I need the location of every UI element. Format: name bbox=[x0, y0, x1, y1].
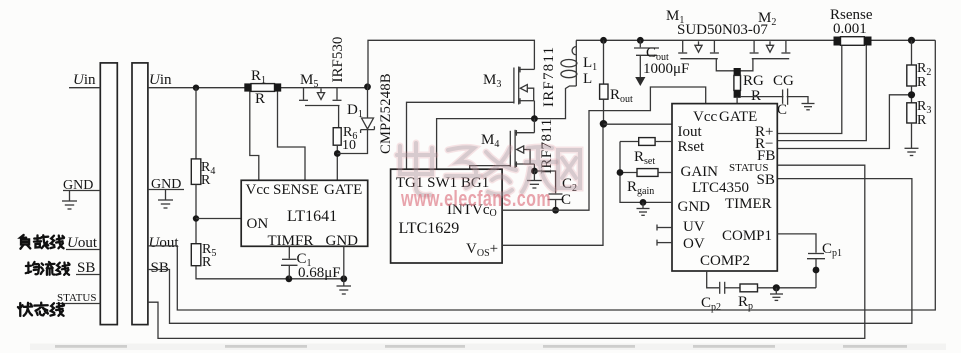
label 均流线 bbox=[26, 262, 70, 275]
node M5 output bbox=[364, 83, 371, 90]
node rail/Rout bbox=[600, 37, 607, 44]
wire Vcc pin path bbox=[250, 92, 259, 181]
wire M2 gate to RG bbox=[737, 59, 753, 71]
svg-text:Iout: Iout bbox=[678, 124, 703, 140]
bottom scan smudge bbox=[30, 344, 946, 351]
svg-text:0.68μF: 0.68μF bbox=[298, 265, 341, 281]
capacitor C2 bbox=[548, 194, 564, 210]
node Cp1 bottom bbox=[813, 267, 820, 274]
resistor R2 bbox=[907, 40, 917, 103]
svg-text:Rout: Rout bbox=[610, 87, 633, 105]
svg-text:Rset: Rset bbox=[634, 149, 655, 167]
ic LT1641 box bbox=[241, 180, 368, 246]
mosfet M2 bbox=[750, 40, 791, 58]
svg-text:GND: GND bbox=[678, 199, 711, 215]
node C2/INTVco bbox=[552, 207, 559, 214]
resistor R4 bbox=[191, 159, 201, 185]
svg-text:M4: M4 bbox=[481, 132, 499, 150]
wire R4 divider branch bbox=[195, 88, 197, 159]
wire COMP1 to Cp1 bbox=[777, 234, 816, 253]
svg-text:R: R bbox=[201, 173, 211, 188]
wire SB net to bus bbox=[148, 179, 912, 324]
inductor L1 bbox=[561, 40, 577, 86]
node ON junction bbox=[193, 215, 199, 221]
svg-text:Rset: Rset bbox=[678, 139, 706, 155]
svg-text:TIMER: TIMER bbox=[725, 196, 772, 212]
svg-text:GND: GND bbox=[63, 178, 93, 193]
node switch bbox=[531, 115, 538, 122]
capacitor C1 bbox=[281, 259, 298, 279]
wire COMP2 down bbox=[707, 271, 719, 288]
wire M1 gate to RG bbox=[716, 59, 737, 71]
svg-text:M3: M3 bbox=[483, 72, 501, 90]
svg-text:D1: D1 bbox=[347, 102, 363, 120]
svg-text:Uin: Uin bbox=[149, 72, 172, 88]
wire RG bottom to CG and gnd bbox=[741, 97, 808, 104]
wire M4 drain up bbox=[533, 119, 535, 133]
node M4 source bbox=[531, 168, 538, 175]
wire set/gain bracket bbox=[620, 142, 672, 203]
svg-text:www.elecfans.com: www.elecfans.com bbox=[400, 188, 551, 212]
connector bar J2 bbox=[132, 63, 148, 325]
wire R6 to GATE pin bbox=[336, 145, 338, 180]
mosfet M4 bbox=[510, 130, 534, 168]
svg-text:GATE: GATE bbox=[719, 109, 757, 125]
svg-text:CG: CG bbox=[773, 73, 794, 89]
wire STATUS left stub bbox=[56, 303, 100, 305]
ground M4 source bbox=[527, 171, 542, 188]
pin stub UV bbox=[657, 225, 672, 231]
node Rout bottom bbox=[600, 120, 608, 128]
svg-text:Uout: Uout bbox=[67, 235, 98, 251]
svg-text:R1: R1 bbox=[251, 68, 266, 86]
ground GND line bbox=[637, 202, 650, 215]
svg-text:OV: OV bbox=[683, 236, 705, 252]
resistor R3 bbox=[907, 103, 917, 149]
resistor RG bbox=[734, 68, 741, 98]
node rail/Cout bbox=[637, 37, 644, 44]
wire Uout left stub bbox=[66, 249, 100, 251]
svg-text:LTC4350: LTC4350 bbox=[692, 180, 749, 196]
wire TIMFR to C1 bbox=[288, 246, 290, 258]
svg-text:LTC1629: LTC1629 bbox=[399, 220, 460, 237]
svg-text:UV: UV bbox=[683, 219, 705, 235]
wire GND pin down bbox=[343, 246, 345, 278]
wire TG1 bbox=[407, 102, 514, 169]
wire R- sense bbox=[777, 46, 866, 141]
ground at J2 bbox=[158, 190, 173, 209]
watermark calligraphy red halo bbox=[397, 143, 580, 195]
label 负载线 bbox=[20, 235, 64, 249]
ground R3 bbox=[905, 148, 919, 155]
svg-text:GATE: GATE bbox=[324, 182, 362, 198]
capacitor Cp1 bbox=[807, 254, 825, 288]
ground at J1 bbox=[62, 191, 77, 210]
svg-text:M5: M5 bbox=[300, 72, 318, 90]
mosfet M5 bbox=[299, 88, 342, 106]
label 状态线 bbox=[18, 303, 64, 316]
svg-text:C: C bbox=[561, 192, 571, 208]
svg-text:R: R bbox=[917, 75, 927, 90]
wire M5 gate to R6 bbox=[338, 106, 340, 128]
svg-text:STATUS: STATUS bbox=[57, 292, 96, 304]
wire SW1 / switch node line bbox=[437, 86, 577, 169]
node gnd line bbox=[640, 199, 647, 206]
wire R5 to gnd line bbox=[196, 266, 344, 279]
svg-text:COMP1: COMP1 bbox=[722, 228, 772, 244]
svg-text:Uout: Uout bbox=[149, 235, 180, 251]
svg-text:Uin: Uin bbox=[73, 72, 96, 88]
wire SENSE pin path bbox=[278, 92, 306, 181]
ic LTC4350 box bbox=[672, 104, 777, 271]
svg-text:0.001: 0.001 bbox=[833, 21, 867, 37]
svg-text:TIMFR: TIMFR bbox=[268, 233, 314, 249]
wire GND left underline bbox=[63, 190, 100, 192]
wire R4 to R5 bbox=[195, 184, 197, 243]
svg-text:GAIN: GAIN bbox=[681, 164, 719, 180]
wire M4 source down bbox=[533, 164, 535, 171]
svg-text:CMPZ5248B: CMPZ5248B bbox=[378, 73, 394, 154]
svg-text:SENSE: SENSE bbox=[273, 182, 319, 198]
mosfet M1 bbox=[678, 40, 719, 58]
resistor Rout bbox=[600, 40, 608, 124]
resistor R1 bbox=[244, 83, 281, 91]
ic LTC1629 box bbox=[391, 169, 503, 263]
node R2/R3 tap bbox=[908, 91, 915, 98]
resistor Rset bbox=[620, 138, 672, 146]
wire ON bbox=[196, 218, 241, 220]
svg-text:C: C bbox=[777, 102, 787, 118]
svg-text:R: R bbox=[917, 113, 927, 128]
wire Uout net to bus bbox=[148, 40, 935, 310]
svg-text:SB: SB bbox=[151, 260, 169, 276]
svg-text:RG: RG bbox=[743, 73, 764, 89]
svg-text:IRF530: IRF530 bbox=[330, 37, 346, 83]
wire Vos+ sense bbox=[502, 124, 603, 246]
wire R+ sense bbox=[777, 46, 842, 134]
resistor R5 bbox=[191, 244, 201, 266]
capacitor CG bbox=[783, 89, 788, 105]
svg-text:L: L bbox=[583, 71, 592, 87]
svg-text:Vcc: Vcc bbox=[246, 182, 270, 198]
svg-text:COMP2: COMP2 bbox=[700, 253, 750, 269]
wire BG1 bbox=[470, 166, 511, 170]
svg-text:GND: GND bbox=[326, 233, 359, 249]
wire GND right underline bbox=[148, 189, 184, 191]
svg-text:Cp2: Cp2 bbox=[701, 295, 721, 313]
node Rgain left bbox=[617, 169, 624, 176]
svg-text:1000μF: 1000μF bbox=[643, 61, 689, 77]
wire output rail bbox=[576, 39, 935, 41]
wire INTVco to Vcc of LTC4350 bbox=[502, 87, 706, 210]
svg-text:Rp: Rp bbox=[738, 294, 753, 312]
svg-text:R: R bbox=[255, 91, 265, 107]
wire SB left stub bbox=[76, 274, 100, 276]
watermark calligraphy gray core bbox=[397, 143, 580, 195]
ground arrow Cout bbox=[635, 77, 645, 86]
node Rp gnd bbox=[773, 284, 780, 291]
svg-text:GND: GND bbox=[151, 177, 181, 192]
wire C2 branch bbox=[534, 171, 555, 193]
capacitor Cout bbox=[634, 40, 659, 77]
connector bar J1 bbox=[100, 63, 117, 325]
svg-text:IRF7811: IRF7811 bbox=[541, 46, 557, 107]
ground LT1641 GND bbox=[337, 279, 352, 294]
svg-text:ON: ON bbox=[247, 216, 269, 232]
resistor Rp bbox=[740, 284, 816, 292]
ground Rp bbox=[770, 288, 783, 301]
wire Iout pin bbox=[604, 123, 673, 125]
svg-text:SUD50N03-07: SUD50N03-07 bbox=[677, 22, 768, 38]
resistor Rgain bbox=[620, 169, 672, 177]
svg-text:Cp1: Cp1 bbox=[822, 241, 842, 259]
node GND bottom bbox=[340, 275, 347, 282]
svg-text:SB: SB bbox=[77, 260, 95, 276]
svg-text:Vcc: Vcc bbox=[693, 109, 717, 125]
svg-text:R: R bbox=[202, 255, 212, 270]
ground CG bbox=[802, 104, 815, 110]
wire input rail to M3 bbox=[368, 40, 535, 87]
node gate/zener bbox=[334, 150, 341, 157]
resistor R6 bbox=[333, 128, 341, 146]
wire STATUS net to bus bbox=[148, 165, 865, 338]
mosfet M3 bbox=[514, 67, 535, 105]
wire FB divider tap bbox=[777, 95, 911, 149]
wire Uin rail bbox=[148, 87, 368, 89]
pin stub OV bbox=[657, 240, 672, 246]
svg-text:M2: M2 bbox=[758, 10, 776, 28]
wire GATE pin bbox=[736, 97, 738, 104]
svg-text:10: 10 bbox=[342, 138, 356, 153]
svg-text:Rgain: Rgain bbox=[627, 179, 654, 197]
node C1 bottom bbox=[286, 275, 293, 282]
resistor Rsense bbox=[834, 37, 872, 46]
svg-text:SB: SB bbox=[757, 172, 775, 188]
capacitor Cp2 bbox=[720, 282, 740, 294]
node rail/R2 bbox=[908, 37, 915, 44]
wire Uin left stub bbox=[69, 87, 100, 89]
wire M3 source to switch node bbox=[533, 101, 535, 119]
node Uin/R4 bbox=[193, 85, 199, 91]
svg-text:LT1641: LT1641 bbox=[287, 208, 337, 225]
zener D1 bbox=[337, 87, 374, 154]
